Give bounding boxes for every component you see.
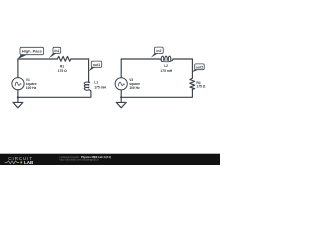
svg-text:175 mH: 175 mH <box>94 85 106 89</box>
inductor L1 <box>84 81 91 91</box>
footer bar <box>0 154 220 165</box>
wire V2 bottom to ground <box>120 90 122 102</box>
CircuitLab logo <box>5 156 34 165</box>
resistor R2 <box>190 78 195 89</box>
net label in1 <box>49 47 61 58</box>
svg-text:High_Pass: High_Pass <box>22 49 42 54</box>
label V1 value <box>26 78 37 90</box>
svg-text:175 Ω: 175 Ω <box>58 69 67 73</box>
wire V1 bottom to ground <box>17 90 19 103</box>
wire corner down to L1 <box>88 59 90 82</box>
svg-text:in1: in1 <box>54 49 59 53</box>
net label in2 <box>151 47 163 58</box>
net label out2 <box>192 64 204 72</box>
wire R1 to corner <box>71 58 89 60</box>
wire L1 bottom to rail <box>18 91 91 98</box>
svg-text:in2: in2 <box>156 49 161 53</box>
svg-text:http://circuitlab.com/c/8dahag: http://circuitlab.com/c/8dahagv5jk3r <box>60 159 99 162</box>
svg-text:175 mH: 175 mH <box>160 69 172 73</box>
label R1 value <box>58 64 67 73</box>
label V2 value <box>129 78 140 90</box>
svg-text:out1: out1 <box>93 63 100 67</box>
ground left <box>13 102 23 107</box>
wire R2 bottom to rail <box>121 89 192 97</box>
label L2 value <box>160 64 172 73</box>
svg-text:100 Hz: 100 Hz <box>26 86 37 90</box>
junction below V2 <box>120 96 122 98</box>
voltage source V1 <box>12 78 24 90</box>
ground right <box>116 102 126 107</box>
svg-text:L2: L2 <box>164 64 168 68</box>
wire top rail to L2 <box>121 58 160 60</box>
svg-text:100 Hz: 100 Hz <box>129 86 140 90</box>
voltage source V2 <box>115 78 127 90</box>
net label High_Pass <box>18 47 44 59</box>
net label out1 <box>89 61 102 71</box>
wire L2 to corner <box>173 58 193 60</box>
inductor L2 <box>160 56 173 62</box>
svg-text:LAB: LAB <box>24 160 34 165</box>
svg-text:L1: L1 <box>94 80 98 84</box>
wire corner down to R2 <box>191 59 193 78</box>
svg-text:out2: out2 <box>196 65 203 69</box>
label L1 value <box>94 80 106 89</box>
svg-text:175 Ω: 175 Ω <box>196 85 205 89</box>
junction below V1 <box>17 96 19 98</box>
label R2 value <box>196 81 205 89</box>
resistor R1 <box>57 56 71 61</box>
svg-text:R1: R1 <box>60 64 64 68</box>
wire V1 top lead <box>17 59 19 78</box>
wire top rail left to R1 <box>18 58 57 60</box>
wire V2 top lead <box>120 59 122 78</box>
